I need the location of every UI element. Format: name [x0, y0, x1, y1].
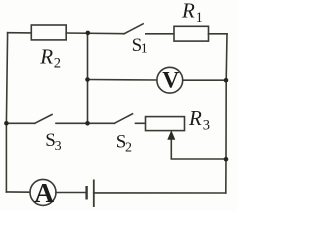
wire voltmeter left [88, 79, 158, 82]
resistor R2 [31, 25, 66, 40]
wire bottom-left [6, 191, 30, 193]
svg-text:A: A [34, 177, 54, 208]
switch S2 blade [114, 114, 132, 124]
svg-text:V: V [162, 67, 179, 93]
ammeter A circle [30, 179, 56, 205]
switch S1 blade [124, 24, 143, 34]
svg-text:3: 3 [55, 139, 62, 154]
node top (junction of R2/S1 wire and middle branch) [86, 31, 91, 36]
wire S3 to node B [56, 122, 88, 124]
label R3 [188, 106, 210, 133]
wire S3 row left [6, 122, 34, 124]
svg-text:R: R [188, 106, 202, 130]
rheostat R3 slider wire [171, 135, 226, 159]
label S1 [132, 35, 148, 56]
rheostat R3 slider arrowhead [167, 130, 175, 139]
wire right vertical [226, 34, 227, 193]
svg-text:1: 1 [196, 10, 203, 26]
svg-text:2: 2 [125, 140, 132, 155]
wire left vertical [6, 33, 7, 192]
svg-text:R: R [39, 44, 53, 68]
svg-text:3: 3 [203, 117, 210, 133]
label S2 [116, 132, 132, 156]
wire top-left horizontal [8, 32, 32, 34]
switch S3 blade [35, 115, 52, 124]
wire top-right horizontal [209, 33, 228, 35]
node left wire / S3 row [4, 121, 9, 126]
battery negative plate (short) [85, 186, 87, 200]
node right wire / voltmeter [224, 78, 229, 83]
wire battery to right [94, 192, 226, 194]
svg-text:1: 1 [141, 41, 148, 56]
node S3/S2 row middle [85, 121, 90, 126]
resistor R1 [174, 26, 209, 41]
rheostat R3 box [146, 117, 185, 131]
svg-text:R: R [181, 0, 195, 23]
wire top middle (R2 to S1) [66, 32, 124, 35]
label R1 [181, 0, 203, 26]
wire middle vertical [87, 33, 89, 123]
wire S1 to R1 [146, 33, 174, 35]
label R2 [39, 44, 61, 71]
node right wire / R3 slider [224, 157, 229, 162]
wire voltmeter right [183, 79, 226, 81]
svg-text:2: 2 [54, 56, 61, 72]
node voltmeter branch [85, 77, 90, 82]
wire ammeter to battery [56, 192, 87, 194]
wire node B to S2 [88, 122, 115, 124]
wire S2 to R3 [136, 122, 147, 124]
label S3 [45, 130, 61, 154]
battery positive plate (long) [93, 180, 95, 208]
voltmeter V circle [157, 67, 183, 93]
